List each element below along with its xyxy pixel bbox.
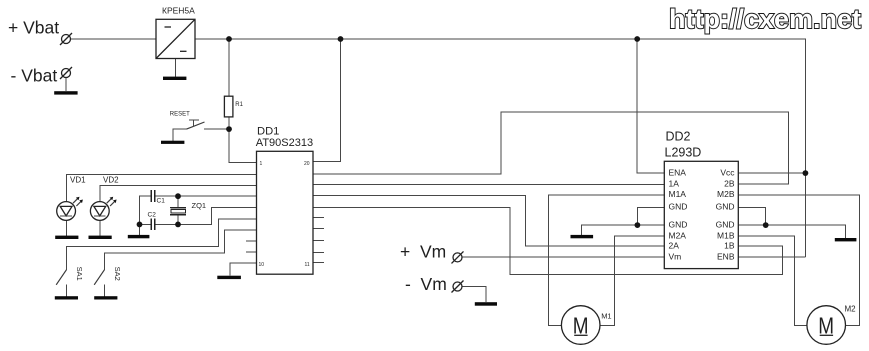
- ground LED VD2: [89, 236, 112, 239]
- wire DD1 pin11 stub: [313, 262, 324, 264]
- svg-text:M1B: M1B: [717, 230, 735, 240]
- wire DD2 M1A to motor M1 left terminal: [548, 195, 664, 325]
- svg-text:AT90S2313: AT90S2313: [256, 137, 313, 149]
- wire DD1 pin2 to LED VD1: [67, 174, 257, 202]
- svg-text:+ Vbat: + Vbat: [8, 18, 59, 38]
- svg-text:- Vm: - Vm: [405, 274, 447, 294]
- wire crystal ZQ1 top stub: [177, 196, 179, 207]
- crystal ZQ1: [170, 201, 206, 215]
- wire DD1 pin10 to ground: [230, 263, 257, 276]
- svg-text:ZQ1: ZQ1: [192, 201, 207, 210]
- ground switch SA1: [55, 296, 78, 299]
- svg-text:R1: R1: [235, 102, 243, 108]
- svg-text:10: 10: [259, 262, 265, 268]
- driver IC DD2 L293D: [664, 130, 738, 269]
- wire DD1 pin12 stub: [313, 251, 324, 253]
- terminal +Vm: [400, 242, 464, 264]
- svg-text:GND: GND: [716, 202, 735, 212]
- svg-text:L293D: L293D: [665, 146, 702, 160]
- ground DD2 right GND: [835, 238, 857, 241]
- svg-text:20: 20: [304, 161, 310, 167]
- svg-text:SA2: SA2: [113, 267, 122, 281]
- wire DD1 pin15 stub: [313, 216, 324, 218]
- node junction capacitor ground leg: [137, 222, 143, 228]
- svg-text:ENA: ENA: [669, 168, 687, 178]
- ground -Vbat: [54, 91, 77, 94]
- terminal -Vbat: [11, 66, 73, 86]
- node junction rail/R1: [226, 36, 232, 42]
- capacitor C1: [151, 190, 165, 204]
- svg-text:2A: 2A: [669, 240, 680, 250]
- svg-text:RESET: RESET: [170, 111, 190, 117]
- wire switch SA2 bottom contact to ground: [103, 284, 105, 296]
- wire DD2 Vm to +Vm terminal: [462, 256, 664, 258]
- ground DD1 pin10: [217, 276, 241, 279]
- svg-text:M2: M2: [845, 304, 857, 313]
- switch SA2: [94, 267, 122, 285]
- svg-text:GND: GND: [716, 219, 735, 229]
- wire DD1 pin8 stub: [246, 240, 257, 242]
- wire DD1 pin3 to LED VD2: [100, 186, 257, 203]
- wire DD1 pin9 stub: [246, 251, 257, 253]
- svg-text:M: M: [573, 312, 589, 338]
- voltage regulator KREN5A: [156, 6, 195, 59]
- terminal -Vm: [405, 274, 464, 294]
- wire R1 bottom to reset node and DD1 pin 1: [229, 117, 257, 162]
- wire -Vbat terminal stem to ground: [65, 78, 67, 91]
- wire reset button left contact to ground: [173, 129, 187, 141]
- wire DD1 pin7 to switch SA2: [104, 230, 256, 270]
- node junction rail/DD1 Vcc: [338, 36, 344, 42]
- op IC DD1 AT90S2313: [256, 125, 313, 274]
- svg-text:DD2: DD2: [666, 130, 691, 144]
- wire -Vm terminal to ground: [462, 287, 486, 303]
- svg-text:VD2: VD2: [103, 176, 119, 185]
- wire DD2 left GND lower pin to ground symbol: [582, 225, 665, 235]
- resistor R1: [224, 96, 243, 117]
- svg-text:C1: C1: [157, 198, 166, 205]
- motor M2: [807, 304, 856, 344]
- wire DD1 pin19 to DD2 2B: [313, 112, 788, 184]
- node junction DD2 left GND: [635, 222, 641, 228]
- capacitor C2: [148, 212, 157, 231]
- watermark cxem.net site logo text: [669, 4, 861, 34]
- wire +5V rail from regulator output across top, down to DD2 Vcc: [195, 39, 805, 257]
- wire regulator ground stem: [175, 59, 177, 78]
- GROUND SYMBOLS: [54, 77, 856, 306]
- wire DD2 M2B to motor M2 right terminal: [738, 195, 859, 325]
- svg-text:Vm: Vm: [669, 251, 682, 261]
- svg-text:ENB: ENB: [717, 251, 735, 261]
- wire DD1 pin13 stub: [313, 239, 324, 241]
- svg-text:GND: GND: [669, 219, 688, 229]
- svg-text:11: 11: [305, 262, 310, 268]
- svg-text:1B: 1B: [724, 240, 735, 250]
- svg-text:1: 1: [260, 161, 263, 167]
- svg-text:M: M: [818, 312, 834, 338]
- wire LED VD2 cathode to ground: [99, 221, 101, 237]
- terminal +Vbat: [8, 18, 72, 46]
- svg-text:C2: C2: [148, 212, 157, 219]
- wire DD1 pin17 to DD2 2A: [313, 196, 664, 246]
- wire +Vbat terminal to regulator input: [71, 38, 157, 40]
- svg-text:DD1: DD1: [257, 125, 279, 137]
- ground LED VD1: [55, 236, 78, 239]
- wire C1 left plate to common capacitor leg: [140, 196, 151, 224]
- switch SA1: [56, 267, 84, 285]
- wire switch SA1 bottom contact to ground: [65, 284, 67, 296]
- node junction DD2 right GND: [763, 222, 769, 228]
- svg-text:http://cxem.net: http://cxem.net: [669, 4, 861, 34]
- LED VD1: [57, 176, 86, 221]
- svg-text:+ Vm: + Vm: [400, 242, 446, 262]
- svg-text:SA1: SA1: [75, 267, 84, 281]
- node junction reset: [226, 126, 232, 132]
- wire DD1 pin20 to +5V rail: [313, 39, 341, 162]
- svg-text:2B: 2B: [724, 178, 735, 188]
- svg-text:КРЕН5А: КРЕН5А: [162, 6, 195, 16]
- wire LED VD1 cathode to ground: [66, 221, 68, 237]
- ground switch SA2: [94, 296, 117, 299]
- node junction XTAL1: [175, 193, 181, 199]
- LED VD2: [90, 176, 119, 221]
- ground reset button: [161, 141, 184, 144]
- wire DD1 pin6 to switch SA1: [66, 219, 256, 270]
- ground regulator: [163, 77, 186, 80]
- motor M1: [561, 306, 611, 345]
- svg-text:GND: GND: [669, 202, 688, 212]
- svg-text:Vcc: Vcc: [720, 168, 735, 178]
- svg-text:VD1: VD1: [70, 176, 86, 185]
- wire DD2 Vcc to +5V vertical: [738, 172, 805, 174]
- wire DD1 pin16 to DD2 1B: [313, 207, 783, 274]
- node junction rail/ENA: [634, 36, 640, 42]
- wire R1 top from rail: [228, 39, 230, 97]
- wire DD2 right GND upper pin jumper: [738, 207, 765, 225]
- wire XTAL1 net: DD1 pin4 to C1 and crystal top: [155, 195, 257, 197]
- ground crystal capacitors: [128, 235, 150, 238]
- svg-text:M1A: M1A: [669, 189, 687, 199]
- pushbutton RESET: [170, 111, 205, 129]
- wire reset button to reset node: [204, 128, 229, 130]
- wire DD2 M2A to motor M1 right terminal: [600, 236, 665, 325]
- ground DD2 left GND: [571, 235, 594, 238]
- wire DD2 ENA to +5V rail: [637, 39, 664, 173]
- node junction Vcc/ENB: [803, 170, 809, 176]
- svg-text:M2A: M2A: [669, 230, 687, 240]
- wire crystal ZQ1 bottom stub: [177, 215, 179, 225]
- svg-text:- Vbat: - Vbat: [11, 66, 58, 86]
- wire DD2 ENB from +5V vertical: [738, 256, 805, 258]
- wire DD2 right GND lower pin to right ground symbol: [738, 225, 845, 238]
- wire DD2 left GND upper pin jumper: [637, 207, 664, 225]
- wire capacitor common leg to ground: [139, 224, 141, 235]
- svg-text:M2B: M2B: [717, 189, 735, 199]
- node junction XTAL2: [175, 222, 181, 228]
- wire C2 left plate segment: [140, 223, 151, 225]
- wire DD2 M1B to motor M2 left terminal: [738, 236, 807, 325]
- wire DD1 pin18 to DD2 1A: [313, 183, 664, 185]
- wire DD1 pin14 stub: [313, 227, 324, 229]
- wire XTAL2 net: C2 right plate to crystal bottom to DD1 pin5: [155, 207, 257, 224]
- svg-text:1A: 1A: [669, 178, 680, 188]
- ground -Vm: [475, 302, 497, 306]
- svg-text:M1: M1: [601, 311, 611, 320]
